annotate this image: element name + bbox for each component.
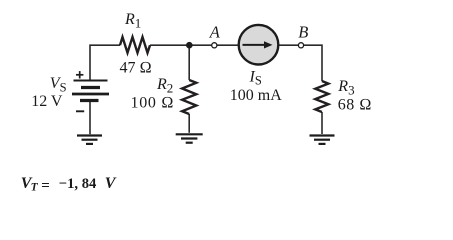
svg-text:T: T [31,181,39,193]
svg-text:−1, 84: −1, 84 [59,176,97,192]
svg-text:A: A [209,22,221,41]
svg-text:R2: R2 [156,76,173,96]
svg-text:R1: R1 [124,11,141,31]
svg-text:R3: R3 [337,78,354,98]
svg-text:47 Ω: 47 Ω [120,60,152,77]
svg-text:100 mA: 100 mA [230,87,282,104]
svg-text:100 Ω: 100 Ω [131,95,175,112]
svg-text:V: V [105,175,117,192]
svg-text:12 V: 12 V [31,93,63,110]
svg-text:VS: VS [50,75,67,94]
svg-text:B: B [298,22,308,41]
svg-text:IS: IS [249,68,262,87]
svg-text:68 Ω: 68 Ω [338,97,372,114]
svg-text:=: = [41,178,50,194]
